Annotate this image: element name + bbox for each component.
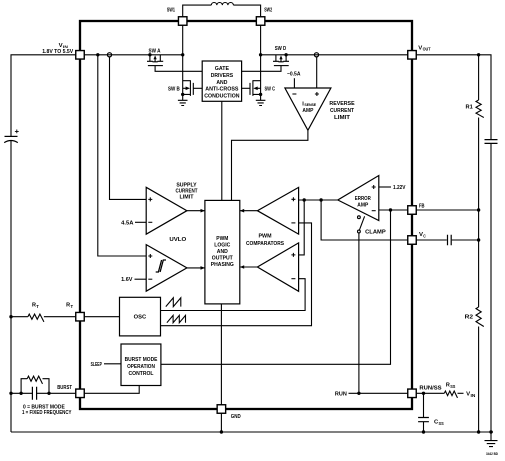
svg-text:AMP: AMP	[302, 108, 313, 114]
svg-text:IN: IN	[471, 393, 476, 398]
svg-text:LIMIT: LIMIT	[334, 115, 351, 121]
svg-text:CURRENT: CURRENT	[330, 108, 354, 114]
svg-text:R1: R1	[466, 105, 473, 111]
svg-text:T: T	[71, 304, 74, 309]
svg-text:C: C	[423, 233, 426, 238]
svg-text:PHASING: PHASING	[211, 262, 234, 268]
svg-text:1.6V: 1.6V	[121, 277, 133, 283]
svg-text:SLEEP: SLEEP	[91, 362, 102, 368]
svg-text:RUN: RUN	[335, 392, 347, 398]
svg-text:LOGIC: LOGIC	[214, 243, 230, 249]
svg-text:SENSE: SENSE	[304, 103, 316, 107]
svg-text:AND: AND	[217, 249, 228, 255]
svg-text:AMP: AMP	[357, 202, 368, 208]
svg-text:BURST: BURST	[57, 385, 72, 391]
svg-text:−0.5A: −0.5A	[287, 72, 301, 78]
svg-text:DRIVERS: DRIVERS	[211, 73, 234, 79]
svg-text:CLAMP: CLAMP	[365, 230, 386, 236]
svg-text:R2: R2	[465, 315, 473, 321]
svg-text:LIMIT: LIMIT	[180, 195, 195, 201]
svg-text:SW B: SW B	[168, 87, 180, 93]
svg-text:1.8V TO 5.5V: 1.8V TO 5.5V	[42, 49, 74, 55]
svg-text:SW A: SW A	[149, 49, 161, 55]
svg-text:GATE: GATE	[215, 66, 230, 72]
svg-text:4.5A: 4.5A	[121, 221, 133, 227]
svg-text:AND: AND	[216, 80, 227, 86]
svg-text:SS: SS	[450, 384, 455, 389]
svg-text:SW C: SW C	[265, 87, 276, 93]
svg-text:PWM: PWM	[259, 234, 272, 240]
svg-text:ERROR: ERROR	[355, 196, 371, 202]
svg-text:REVERSE: REVERSE	[329, 101, 354, 107]
svg-text:CURRENT: CURRENT	[176, 188, 198, 194]
svg-text:T: T	[36, 304, 39, 309]
svg-text:SW D: SW D	[275, 46, 287, 52]
svg-text:ANTI-CROSS: ANTI-CROSS	[205, 87, 238, 93]
svg-text:SUPPLY: SUPPLY	[176, 182, 197, 188]
svg-text:SW2: SW2	[264, 8, 272, 14]
svg-text:BURST MODE: BURST MODE	[125, 357, 158, 363]
svg-text:SW1: SW1	[167, 8, 175, 14]
svg-text:OPERATION: OPERATION	[127, 364, 155, 370]
svg-text:GND: GND	[231, 414, 241, 420]
svg-text:UVLO: UVLO	[169, 237, 187, 243]
svg-text:RUN/SS: RUN/SS	[419, 386, 442, 392]
svg-text:COMPARATORS: COMPARATORS	[246, 241, 284, 247]
svg-text:OSC: OSC	[134, 315, 147, 321]
svg-text:CONDUCTION: CONDUCTION	[204, 94, 239, 100]
svg-text:FB: FB	[419, 203, 425, 209]
svg-text:1.22V: 1.22V	[393, 185, 406, 191]
svg-text:CONTROL: CONTROL	[129, 371, 155, 377]
svg-text:1 = FIXED FREQUENCY: 1 = FIXED FREQUENCY	[22, 410, 72, 416]
svg-text:OUTPUT: OUTPUT	[212, 255, 234, 261]
svg-text:PWM: PWM	[216, 236, 228, 242]
svg-text:SS: SS	[439, 421, 444, 426]
svg-text:3442 BD: 3442 BD	[486, 452, 498, 456]
svg-text:OUT: OUT	[423, 47, 431, 52]
